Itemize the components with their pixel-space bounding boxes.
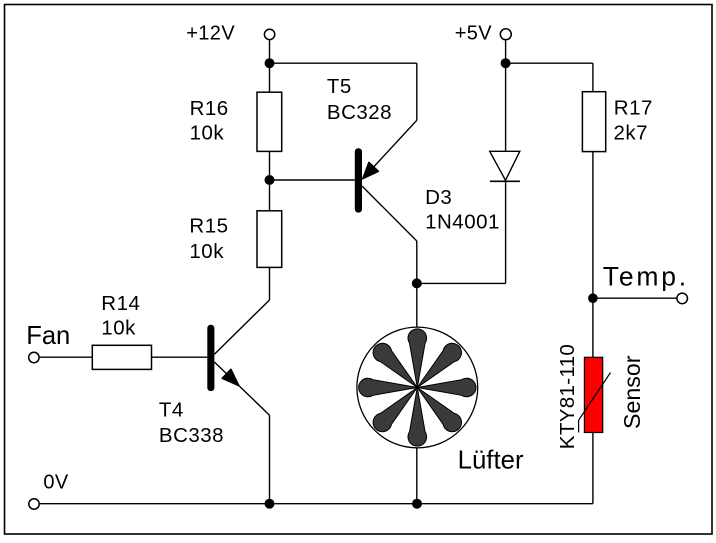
wire T5 base [270,179,355,181]
svg-text:10k: 10k [190,122,225,145]
wire R16 to R15 [269,151,271,210]
svg-text:T4: T4 [159,398,184,421]
wire fan top [416,283,418,327]
node 0V terminal [29,472,69,509]
node +5V terminal [455,23,512,45]
wire collector node to diode [417,282,506,284]
fan motor Luefter [357,327,524,474]
node Temp junction [588,293,598,303]
node junction +12V [265,58,275,68]
node junction collector/fan/diode [412,278,422,288]
node junction fan on rail [412,499,422,509]
wire Temp horizontal [593,297,677,299]
svg-text:KTY81-110: KTY81-110 [556,344,579,449]
node Temp terminal [603,262,689,304]
wire Fan terminal to R14 [39,356,92,358]
node junction +5V [501,58,511,68]
wire +12V vertical to R16 [269,40,271,92]
svg-text:+12V: +12V [186,23,235,45]
resistor R17 [582,92,653,152]
transistor T5 [327,75,417,284]
svg-text:10k: 10k [101,316,136,339]
svg-text:T5: T5 [327,75,352,98]
svg-text:Lüfter: Lüfter [458,447,524,475]
wire +5V horizontal to R17 [506,62,593,64]
wire +5V down to diode [505,40,507,151]
wire 0V rail [40,503,593,505]
svg-text:BC328: BC328 [327,101,392,124]
svg-text:R14: R14 [101,292,140,315]
svg-text:Temp.: Temp. [603,262,689,292]
svg-text:0V: 0V [43,472,69,494]
wire fan bottom [416,448,418,504]
sensor KTY81-110 [556,344,645,449]
svg-text:+5V: +5V [455,23,493,45]
svg-text:Sensor: Sensor [619,355,645,429]
svg-text:BC338: BC338 [159,424,224,447]
transistor T4 [159,267,270,503]
resistor R15 [189,211,281,268]
svg-text:2k7: 2k7 [614,121,649,144]
svg-text:R15: R15 [189,215,228,238]
svg-text:R17: R17 [614,97,653,120]
svg-text:Fan: Fan [26,322,70,350]
svg-text:1N4001: 1N4001 [425,211,500,234]
node junction R16/R15/base [265,175,275,185]
wire R17 down to sensor [592,152,594,358]
svg-text:R16: R16 [190,97,229,120]
wire down to T5 emitter [416,63,418,120]
node Fan input terminal [26,322,70,363]
wire +12V top horizontal [270,62,417,64]
node junction T4 emitter on rail [265,499,275,509]
svg-text:10k: 10k [189,240,224,263]
resistor R16 [190,92,282,151]
wire sensor down to rail [592,433,594,504]
svg-text:D3: D3 [425,186,452,209]
wire T4 base [152,356,208,358]
wire down to R17 [592,63,594,91]
resistor R14 [92,292,151,369]
node +12V terminal [186,23,275,45]
diode D3 [425,151,520,283]
